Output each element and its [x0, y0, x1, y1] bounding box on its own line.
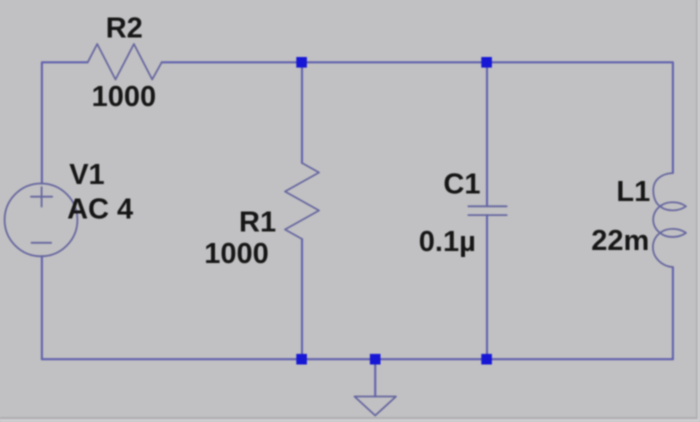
V1 plus sign	[31, 187, 52, 206]
svg-text:R2: R2	[106, 13, 143, 45]
inductor L1 coil	[653, 173, 686, 267]
wire C1 bottom lead	[486, 215, 488, 359]
resistor R2 body	[88, 44, 162, 80]
window border bottom shade	[0, 417, 700, 419]
node junction bottom C1	[481, 354, 492, 365]
window border right shade	[696, 0, 698, 419]
voltage source V1 circle	[5, 184, 78, 257]
wire R1 bottom lead	[301, 239, 303, 359]
wire right lower (L1 bottom to bottom-right corner)	[672, 267, 674, 359]
resistor R1 body	[285, 163, 319, 239]
wire left lower (V1 bottom to bottom-left corner)	[41, 256, 43, 359]
wire top segment R2 to top-right corner	[162, 62, 673, 173]
wire bottom segment	[42, 358, 673, 360]
svg-text:1000: 1000	[92, 81, 157, 113]
svg-text:22m: 22m	[591, 225, 649, 257]
V1 minus sign	[32, 242, 52, 244]
ground symbol triangle	[355, 397, 397, 416]
wire R1 top lead	[301, 62, 303, 163]
node junction top R1	[296, 57, 307, 68]
node junction bottom R1	[296, 354, 307, 365]
wire ground stem	[374, 359, 376, 396]
svg-text:V1: V1	[69, 159, 104, 191]
wire C1 top lead	[486, 62, 488, 206]
svg-text:L1: L1	[616, 176, 650, 208]
svg-text:0.1µ: 0.1µ	[419, 226, 476, 258]
svg-text:C1: C1	[443, 169, 480, 201]
node junction top C1	[481, 57, 492, 68]
window border bottom light strip	[0, 419, 700, 422]
wire top-left segment (corner to R2)	[42, 62, 88, 183]
window border right light strip	[698, 0, 700, 419]
svg-text:1000: 1000	[204, 238, 269, 270]
capacitor C1 top plate	[468, 205, 506, 207]
svg-text:R1: R1	[239, 206, 276, 238]
node junction bottom ground	[370, 354, 381, 365]
svg-text:AC 4: AC 4	[67, 193, 133, 225]
capacitor C1 bottom plate	[468, 214, 506, 216]
